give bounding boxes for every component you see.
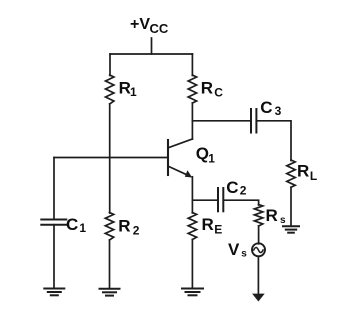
svg-text:C: C bbox=[66, 215, 78, 234]
wire C3 to RL corner bbox=[257, 121, 291, 161]
wire R2 to ground bbox=[109, 240, 111, 288]
wire RL to ground bbox=[290, 187, 292, 226]
svg-text:E: E bbox=[214, 222, 222, 236]
svg-text:s: s bbox=[280, 215, 286, 226]
wire base horizontal bbox=[54, 157, 168, 159]
resistor R1 bbox=[106, 75, 114, 104]
svg-text:s: s bbox=[241, 249, 247, 260]
resistor RC bbox=[188, 75, 196, 103]
transistor Q1 base bar bbox=[167, 140, 169, 175]
wire R1 bottom through base node to R2 top bbox=[109, 104, 111, 213]
svg-text:+V: +V bbox=[130, 16, 150, 33]
svg-text:C: C bbox=[214, 85, 223, 99]
wire rail to R1 top bbox=[109, 54, 111, 76]
ground (R2) bbox=[100, 288, 120, 290]
wire C2 to Rs top bbox=[224, 200, 258, 205]
wire Vs to arrow bbox=[257, 256, 259, 294]
svg-text:CC: CC bbox=[150, 21, 169, 36]
wire C1 to ground bbox=[53, 225, 55, 288]
transistor Q1 emitter diagonal bbox=[169, 167, 190, 177]
wire VCC stub bbox=[151, 38, 153, 54]
svg-text:C: C bbox=[226, 178, 238, 197]
capacitor C2 bbox=[217, 188, 219, 211]
svg-text:R: R bbox=[202, 215, 214, 234]
svg-text:2: 2 bbox=[240, 183, 247, 197]
capacitor C3 bbox=[250, 109, 252, 133]
wire emitter vertical to node bbox=[191, 177, 193, 213]
ground (RL) bbox=[283, 225, 299, 227]
wire rail to RC top bbox=[191, 54, 193, 76]
wire C1 branch down bbox=[53, 158, 55, 220]
transistor Q1 collector diagonal bbox=[169, 139, 193, 148]
svg-text:R: R bbox=[201, 78, 213, 97]
transistor Q1 emitter arrow bbox=[185, 170, 192, 177]
capacitor C1 bbox=[41, 219, 66, 221]
source Vs bbox=[252, 243, 265, 256]
svg-text:Q: Q bbox=[196, 144, 209, 163]
node collector / wire collector tap to C3 bbox=[192, 120, 250, 122]
svg-text:R: R bbox=[297, 162, 309, 181]
wire RE to ground bbox=[191, 240, 193, 289]
svg-text:3: 3 bbox=[275, 104, 282, 118]
node emitter / wire emitter tap to C2 bbox=[192, 199, 217, 201]
resistor RL bbox=[287, 160, 295, 187]
svg-text:R: R bbox=[266, 206, 278, 225]
resistor R2 bbox=[105, 213, 113, 241]
svg-text:R: R bbox=[118, 216, 130, 235]
ground (C1) bbox=[44, 288, 64, 290]
svg-text:1: 1 bbox=[130, 85, 137, 99]
svg-text:2: 2 bbox=[133, 224, 140, 238]
resistor RE bbox=[188, 213, 196, 240]
svg-text:1: 1 bbox=[79, 221, 86, 235]
transistor Q1 label bbox=[196, 144, 216, 166]
wire RC bottom to collector elbow bbox=[191, 103, 193, 139]
wire Rs to Vs bbox=[258, 226, 260, 244]
wire top supply rail bbox=[110, 53, 192, 55]
svg-text:C: C bbox=[260, 98, 272, 117]
svg-text:1: 1 bbox=[208, 152, 215, 166]
resistor Rs bbox=[254, 205, 262, 227]
svg-text:L: L bbox=[310, 169, 317, 183]
ground (RE) bbox=[182, 288, 203, 290]
svg-text:V: V bbox=[228, 240, 240, 259]
ground arrow (Vs) bbox=[252, 294, 265, 302]
power +VCC label bbox=[130, 16, 169, 36]
